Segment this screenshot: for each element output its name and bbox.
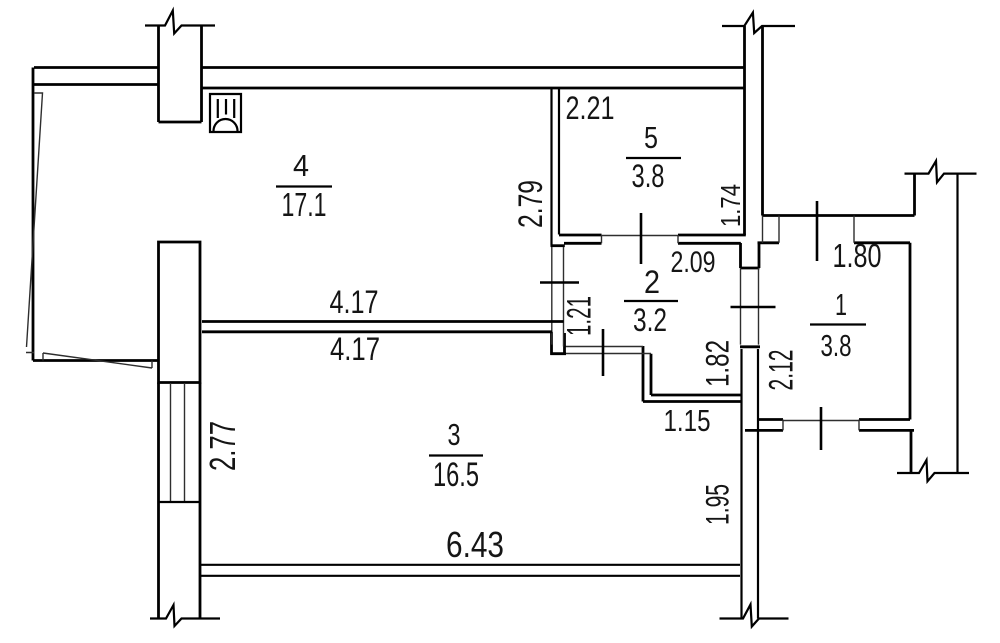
wall room4/room5 partition	[552, 89, 560, 246]
door thin span room1 bottom	[783, 420, 859, 422]
fraction bar room3	[429, 454, 483, 456]
door jambs room1 top	[779, 216, 854, 243]
wall room1 top inner with door opening	[758, 241, 911, 244]
corner room1 top-left	[762, 216, 764, 243]
door thin span hall-room1	[741, 268, 759, 345]
wall hall/room3 right vertical	[742, 349, 759, 619]
wall top inner line	[34, 85, 744, 89]
wall left exterior	[32, 68, 35, 361]
door tick room1 bottom	[820, 407, 823, 450]
break symbol top-left	[145, 11, 215, 34]
svg-text:1.15: 1.15	[664, 403, 711, 438]
break symbol bottom-left	[150, 605, 220, 626]
wall hall extension bottom	[643, 346, 742, 402]
svg-text:4.17: 4.17	[330, 284, 379, 320]
wall right pier upper	[913, 174, 916, 216]
door thin span room5	[602, 235, 679, 237]
door tick room2/room3	[602, 329, 605, 376]
break symbol right	[905, 161, 977, 182]
svg-text:1.82: 1.82	[700, 340, 736, 387]
svg-text:1.95: 1.95	[700, 484, 736, 525]
svg-text:5: 5	[644, 120, 658, 155]
door jambs room1 bottom	[783, 420, 859, 431]
svg-text:2.12: 2.12	[763, 350, 801, 391]
wall room4/room3 partition	[202, 322, 564, 332]
door tick room4/room2	[540, 281, 579, 284]
window room3 left inner lines	[171, 383, 185, 502]
svg-text:3.2: 3.2	[633, 302, 667, 338]
window room3 left bottom sill	[159, 501, 201, 503]
pier room4 left	[159, 242, 201, 383]
notch hall top-right	[740, 243, 760, 269]
wall room5 bottom with door opening	[559, 235, 746, 243]
svg-text:1.80: 1.80	[833, 237, 882, 274]
break symbol bottom-center	[720, 605, 789, 627]
door tick hall-room1	[731, 306, 776, 309]
fraction bar room1	[810, 323, 866, 325]
vent flue box	[210, 94, 241, 132]
svg-text:3.8: 3.8	[821, 328, 852, 363]
svg-text:3: 3	[448, 417, 461, 452]
pier top-left chimney	[159, 26, 202, 123]
svg-text:2.21: 2.21	[566, 90, 615, 126]
wall room1 top outer	[763, 214, 915, 217]
balcony glazing line	[26, 93, 43, 353]
wall room1 right	[909, 243, 912, 420]
svg-text:2.77: 2.77	[202, 421, 243, 471]
door jambs room5	[602, 235, 679, 243]
svg-text:2: 2	[644, 264, 660, 300]
wall room1 bottom with door opening	[745, 420, 914, 431]
balcony railing	[43, 353, 152, 368]
balcony bottom line	[33, 359, 158, 362]
door jamb bar hall-room1 bottom	[740, 345, 760, 348]
vent flue inner lines	[218, 99, 234, 118]
break symbol top-center	[722, 13, 795, 34]
wall right exterior cut line	[956, 174, 958, 473]
fraction bar room4	[276, 185, 332, 187]
wall room4/room2 door span	[552, 247, 564, 347]
svg-text:4.17: 4.17	[330, 331, 380, 367]
svg-text:1: 1	[835, 287, 847, 322]
fraction bar room2	[624, 300, 678, 302]
wall room2/room3 partition door span	[564, 347, 652, 354]
svg-text:16.5: 16.5	[433, 456, 479, 494]
svg-text:1.74: 1.74	[715, 184, 746, 227]
vent flue dome arc	[214, 119, 238, 131]
wall foot block room2 left	[550, 332, 566, 355]
door tick room5	[640, 213, 643, 264]
svg-text:17.1: 17.1	[282, 186, 327, 223]
door jamb bar room4/room2 top	[551, 244, 565, 247]
fraction bar room5	[626, 157, 681, 159]
svg-text:3.8: 3.8	[632, 158, 665, 194]
break symbol bottom-right	[897, 460, 969, 481]
svg-text:4: 4	[293, 148, 309, 183]
wall room3 bottom double	[201, 565, 740, 576]
svg-text:2.79: 2.79	[512, 180, 550, 228]
wall top outer line	[34, 66, 744, 69]
wall right lower pier	[910, 430, 913, 473]
svg-text:6.43: 6.43	[446, 524, 504, 565]
svg-text:2.09: 2.09	[671, 246, 716, 279]
wall room5 right / exterior pier	[745, 26, 763, 235]
door tick room1 top	[816, 201, 819, 261]
wall room3 left verticals	[159, 383, 201, 619]
svg-text:1.21: 1.21	[561, 296, 599, 336]
